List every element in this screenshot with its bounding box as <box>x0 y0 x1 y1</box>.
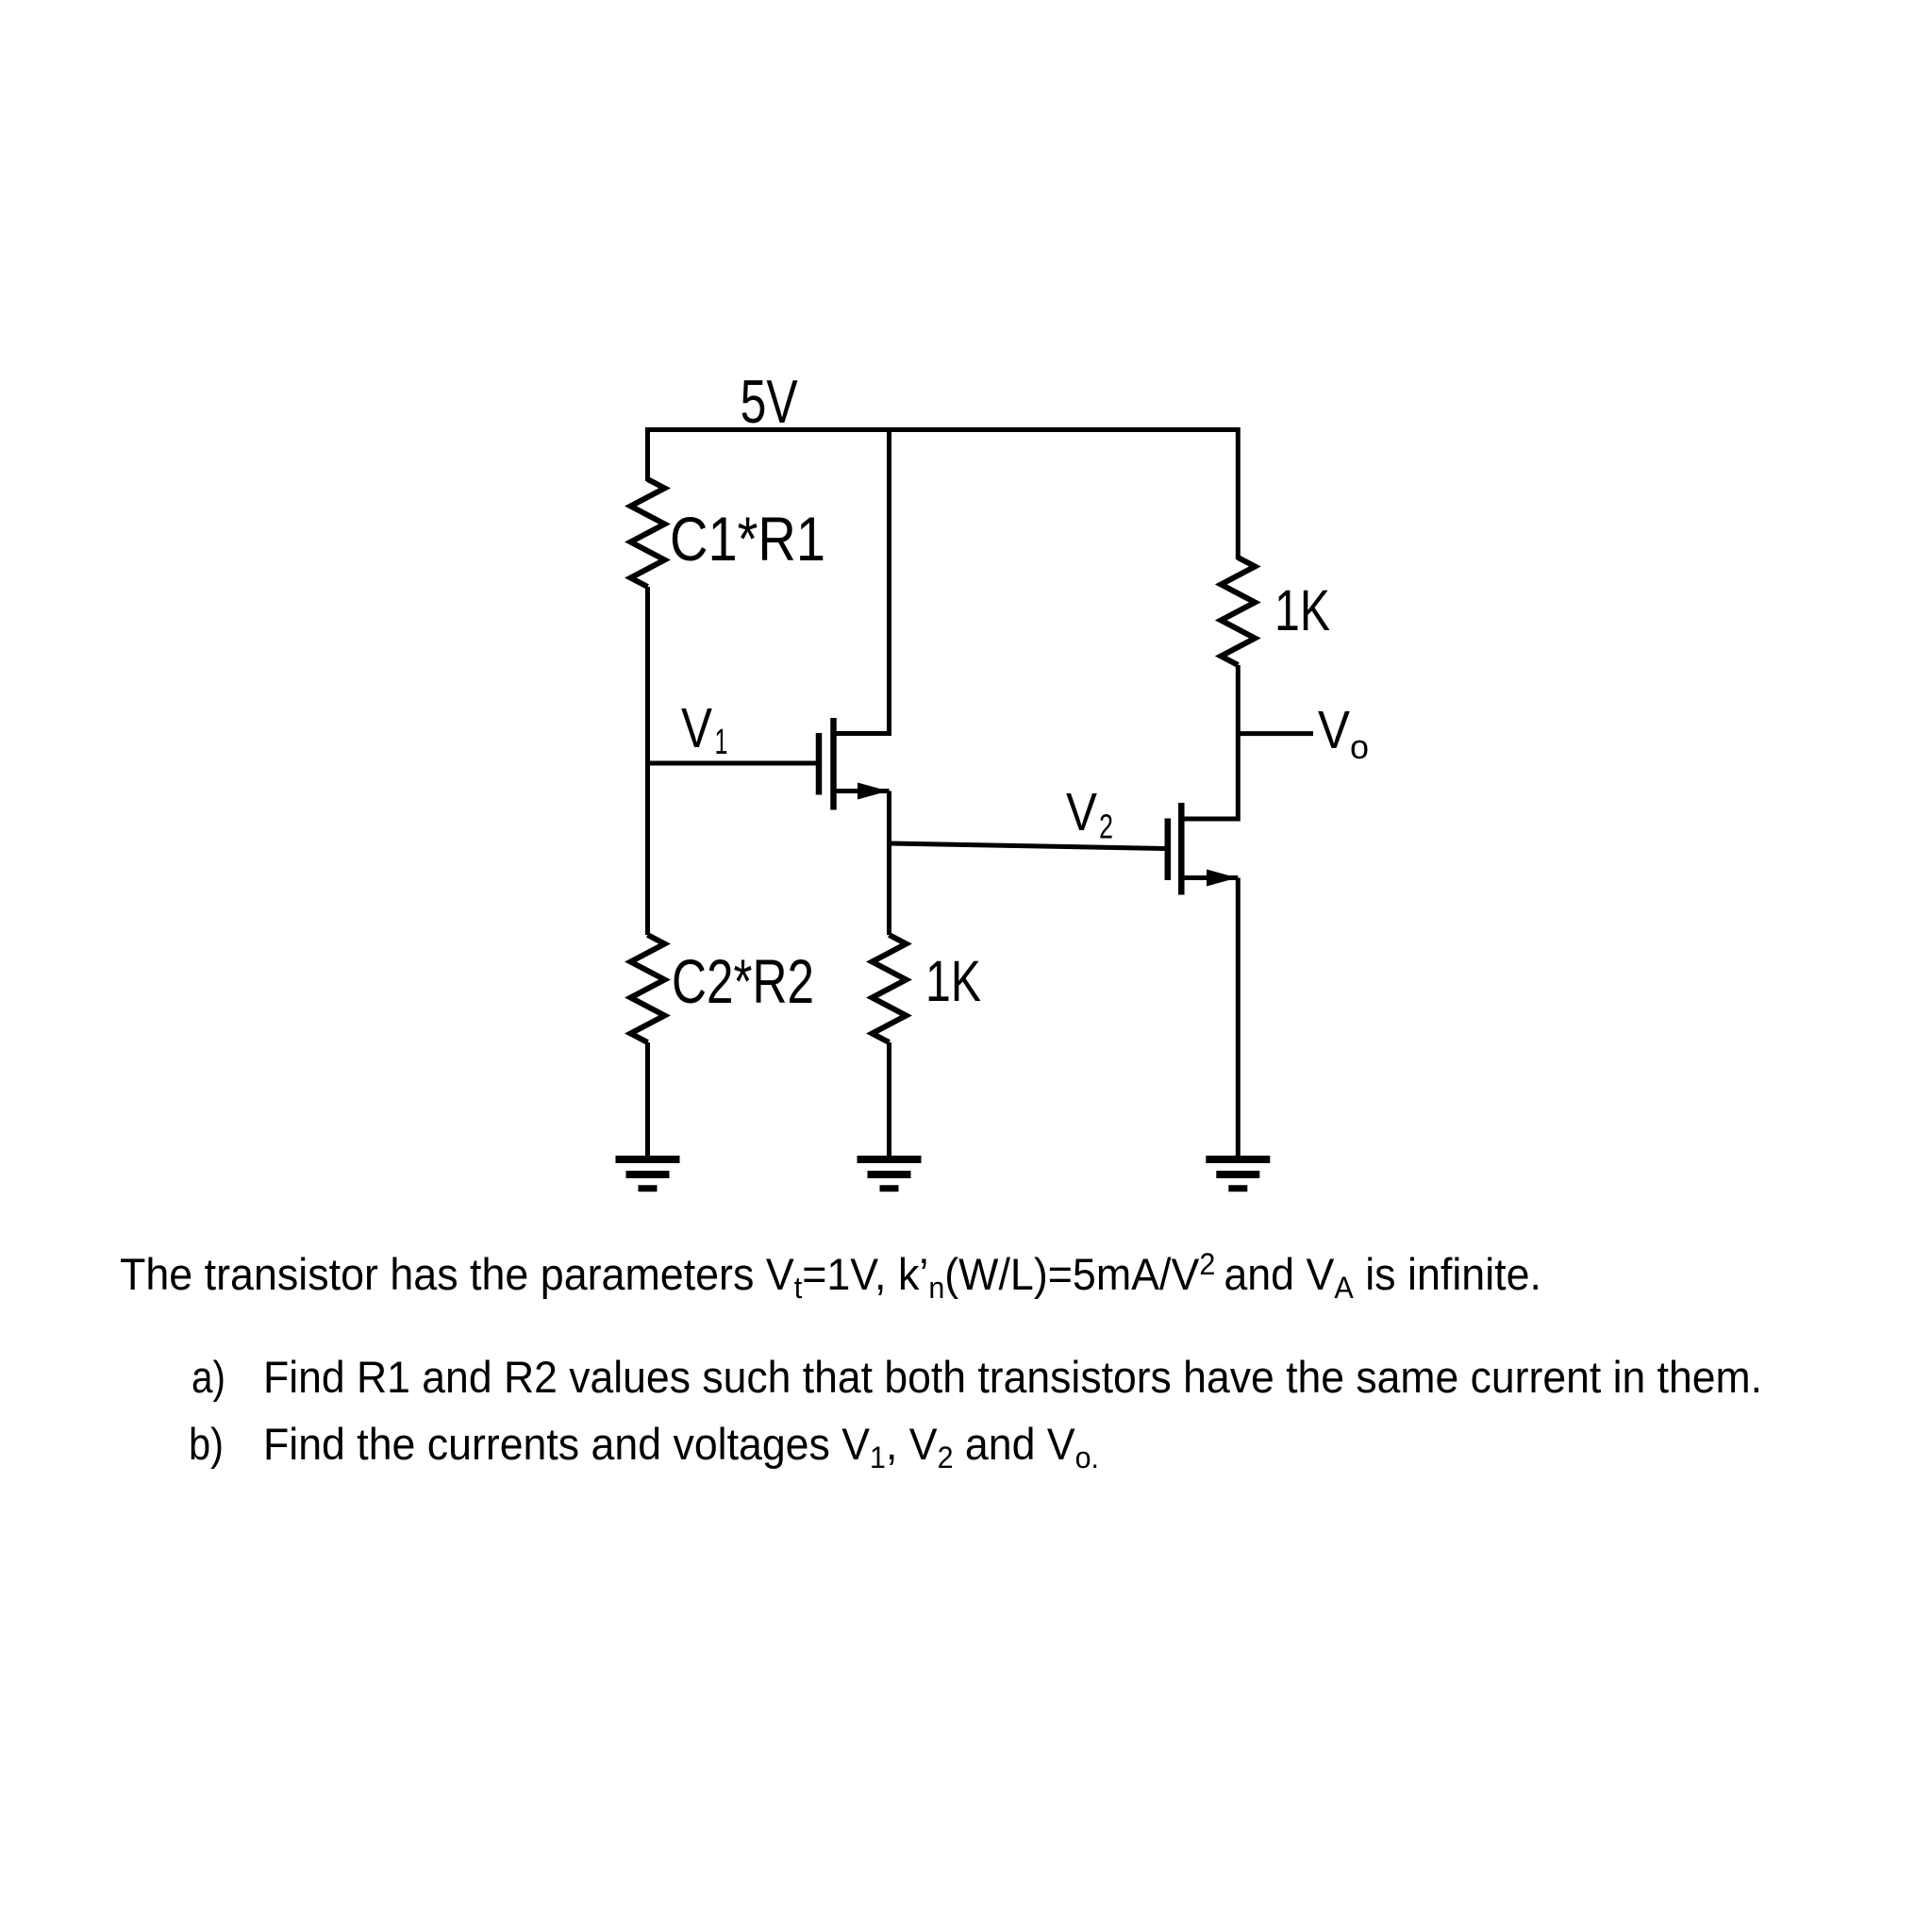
ground right <box>1206 1159 1270 1189</box>
svg-text:b): b) <box>189 1419 224 1469</box>
wire 5V top rail <box>648 430 1239 560</box>
svg-text:C2*R2: C2*R2 <box>672 946 814 1016</box>
svg-text:V: V <box>1318 700 1350 760</box>
wire Q2 source stub <box>1185 875 1239 880</box>
transistor Q1 channel bar <box>830 718 837 810</box>
svg-text:2: 2 <box>1099 808 1113 846</box>
svg-text:a): a) <box>192 1352 225 1402</box>
wire right branch to Q2 drain <box>1185 665 1239 819</box>
node Vo label <box>1318 700 1369 766</box>
svg-text:1K: 1K <box>925 949 981 1013</box>
resistor R2 (C2*R2) <box>631 935 665 1042</box>
transistor Q1 gate bar <box>816 733 823 795</box>
transistor Q2 gate bar <box>1165 819 1172 881</box>
resistor R1 (C1*R1) <box>631 479 665 587</box>
resistor R3 (1K middle) <box>873 935 907 1042</box>
svg-text:1K: 1K <box>1274 578 1330 642</box>
ground middle <box>858 1159 922 1189</box>
svg-text:o: o <box>1350 727 1369 766</box>
transistor Q2 channel bar <box>1178 803 1185 895</box>
svg-text:The transistor has the paramet: The transistor has the parameters Vt=1V,… <box>120 1247 1541 1305</box>
wire Vo stub <box>1238 731 1313 736</box>
wire Q1 drain (from 5V rail) <box>836 430 890 734</box>
wire Q1 source down to node V2 <box>887 791 891 936</box>
svg-text:V: V <box>681 697 713 759</box>
wire middle branch bottom <box>887 1042 891 1159</box>
svg-text:C1*R1: C1*R1 <box>670 504 825 574</box>
node V1 label <box>681 697 728 762</box>
svg-text:1: 1 <box>715 723 728 762</box>
svg-text:V: V <box>1066 782 1097 841</box>
wire right branch bottom <box>1236 878 1241 1160</box>
transistor Q1 source arrow <box>858 783 889 800</box>
node V2 label <box>1066 782 1113 846</box>
wire left branch middle <box>645 587 650 935</box>
wire V1 gate wire <box>648 761 817 766</box>
wire Q1 source stub <box>836 789 890 793</box>
svg-text:Find the currents and voltages: Find the currents and voltages V1, V2 an… <box>263 1419 1099 1474</box>
resistor R4 (1K right) <box>1221 558 1255 665</box>
wire left branch bottom <box>645 1042 650 1159</box>
svg-text:Find R1 and R2 values such tha: Find R1 and R2 values such that both tra… <box>263 1352 1762 1402</box>
transistor Q2 source arrow <box>1207 870 1238 887</box>
svg-text:5V: 5V <box>741 367 798 436</box>
ground left <box>616 1159 680 1189</box>
wire node V2 to Q2 gate <box>890 843 1165 849</box>
